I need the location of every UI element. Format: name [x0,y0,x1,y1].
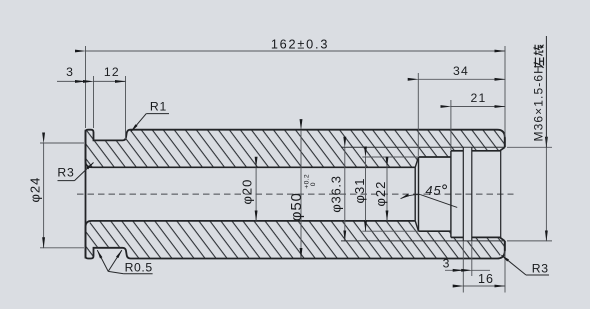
groove wall right [471,147,473,241]
phi31 top line [419,156,451,158]
phi50 text [288,174,317,221]
chamfer edge circle line [414,167,416,221]
svg-text:φ20: φ20 [239,179,254,205]
svg-text:45: 45 [425,183,441,198]
M36 label underline [545,36,547,147]
thread minor top line [472,147,505,151]
dim 34 ext [417,73,419,156]
chamfer diagonal top [415,157,418,167]
groove wall left [462,147,464,241]
phi31 bottom line [419,230,451,232]
hatch bottom section [86,221,505,259]
left face [85,130,87,259]
phi31 ext bottom [362,230,418,232]
dim right extension line [504,46,506,137]
bore entrance fillet R3 top [86,161,92,167]
outline top [86,130,505,162]
chamfer diagonal bottom [415,221,418,231]
svg-text:12: 12 [104,65,120,79]
phi50 dim line [300,130,302,259]
svg-text:3: 3 [66,65,73,79]
svg-text:162±0.3: 162±0.3 [271,37,329,51]
thread major line top (thin) [341,146,505,148]
svg-text:R1: R1 [150,99,167,113]
svg-text:R3: R3 [532,261,549,275]
M36 dim line [545,147,547,241]
svg-text:R0.5: R0.5 [125,261,153,275]
svg-text:0: 0 [310,182,317,186]
svg-text:φ31: φ31 [352,178,367,204]
dim 3 left ext [93,76,95,128]
bore bottom line [92,220,416,222]
dim 3 bottom line left [445,269,463,271]
M36 label CJK zuo (left) glyph [534,57,544,68]
centerline [77,193,514,195]
phi24 ext bottom [40,247,84,249]
thread chamfer edge circle [500,151,502,238]
phi31 dim line [365,157,367,231]
svg-text:φ36.3: φ36.3 [328,175,343,212]
M36 thread dim ext top [507,146,552,148]
dim 12 ext [125,76,127,139]
phi36.3 dim line [344,147,346,241]
groove ext line right long [471,241,473,276]
svg-text:φ24: φ24 [28,177,43,203]
bore entrance fillet R3 bottom [86,221,92,227]
svg-text:R3: R3 [57,165,74,179]
phi20 dim line [255,167,257,221]
dim 162 extension left [85,46,87,128]
dim 3 line [57,80,86,82]
dim 162 line [86,50,506,52]
bore top line [92,166,416,168]
dim 21 line [451,106,505,108]
dim 3 bottom line right [472,269,490,271]
runout top line [451,150,463,152]
svg-text:34: 34 [453,64,469,78]
thread minor bottom line [472,237,505,241]
phi24 dim line [43,143,45,248]
phi24 ext top [40,142,84,144]
svg-text:φ22: φ22 [373,181,388,207]
dim 16 line [463,285,505,287]
svg-text:21: 21 [471,91,487,105]
step at 21 depth [450,151,452,238]
thread major line bottom (thin) [341,240,505,242]
dim 12 line [94,80,126,82]
svg-text:φ50: φ50 [288,192,305,221]
M36 label CJK xuan (rotate) glyph [534,45,544,56]
phi31 ext top [362,156,418,158]
svg-text:M36×1.5-6H: M36×1.5-6H [532,64,546,141]
hatch top section [86,130,505,168]
svg-text:3: 3 [443,257,450,271]
phi22 dim line [386,167,388,221]
groove ext line left long [462,241,464,293]
runout bottom line [451,236,463,238]
right face bottom segment [504,241,506,251]
dim 21 ext [450,100,452,150]
svg-text:16: 16 [478,272,494,286]
right face top segment [504,138,506,148]
outline bottom [86,227,505,259]
dim 34 line [418,78,505,80]
shoulder at phi31 start [418,157,420,231]
M36 thread dim ext bottom [507,240,552,242]
